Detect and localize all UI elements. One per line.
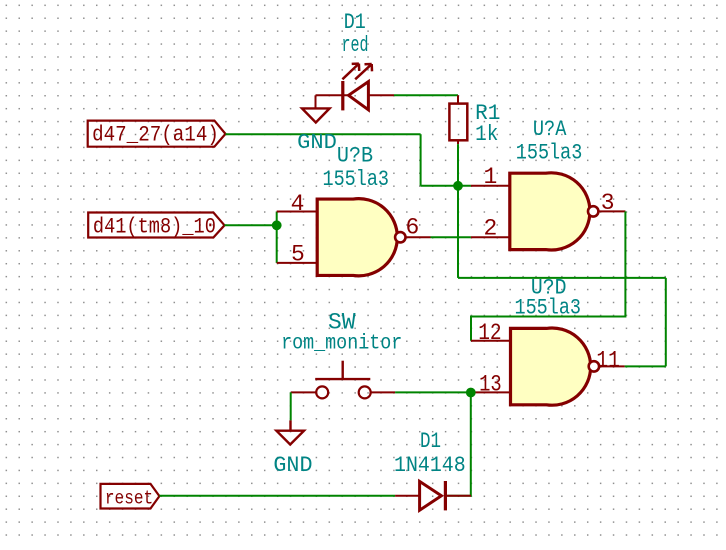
LED cathode bar: [341, 81, 344, 110]
wire horizontal to U?A pin1: [421, 185, 471, 187]
svg-text:1N4148: 1N4148: [394, 453, 466, 478]
wire SW to GND: [290, 392, 292, 420]
op U?D NAND gate: [471, 320, 625, 405]
svg-text:1: 1: [484, 164, 498, 190]
svg-text:11: 11: [596, 347, 620, 373]
wire SW to junction pin13: [395, 391, 471, 393]
gate body U?D: [511, 328, 591, 405]
wire junction down to loop: [457, 186, 459, 278]
wire pin3 down: [471, 211, 625, 340]
wire d47 label to corner: [226, 133, 421, 135]
svg-text:155la3: 155la3: [323, 167, 390, 192]
LED anode bar lead: [368, 94, 394, 96]
diode cathode bar: [444, 481, 447, 510]
wire loop vertical to pin11: [665, 278, 667, 367]
svg-text:d47_27(a14): d47_27(a14): [92, 122, 219, 147]
pin 5 stub: [277, 262, 318, 264]
svg-text:3: 3: [601, 190, 615, 216]
svg-text:13: 13: [479, 372, 502, 398]
svg-text:1k: 1k: [475, 122, 498, 147]
pin 1 stub: [471, 185, 510, 187]
switch actuator bar: [315, 378, 370, 380]
wire loop horizontal: [458, 277, 666, 279]
pin 4 stub: [277, 211, 318, 213]
svg-text:GND: GND: [273, 453, 312, 478]
switch right lead: [371, 391, 395, 393]
switch actuator stem: [342, 361, 344, 379]
junction pin13: [466, 388, 476, 398]
switch left contact: [316, 386, 328, 398]
svg-text:4: 4: [291, 191, 305, 217]
global label d41(tm8)_10: [88, 213, 224, 240]
svg-text:2: 2: [484, 216, 498, 242]
op U?A NAND gate: [471, 164, 626, 250]
svg-text:155la3: 155la3: [515, 296, 582, 321]
LED triangle: [349, 82, 369, 110]
switch left lead: [291, 391, 317, 393]
svg-text:12: 12: [478, 320, 501, 346]
svg-text:D1: D1: [344, 10, 366, 35]
bubble U?A: [588, 206, 598, 216]
resistor R1: [449, 95, 467, 144]
svg-text:rom_monitor: rom_monitor: [281, 333, 402, 356]
gate body U?A: [510, 173, 590, 250]
LED arrow 1: [342, 64, 359, 80]
pin 12 stub: [471, 340, 511, 342]
junction d41: [272, 220, 282, 230]
wire reset to diode: [159, 495, 395, 497]
ground GND (LED): [302, 108, 330, 122]
svg-text:GND: GND: [297, 131, 337, 155]
wire R1 bottom to junction: [457, 144, 459, 186]
wire vertical pin4 to pin5: [276, 212, 278, 263]
bubble U?D: [589, 361, 599, 371]
pin 2 stub: [471, 236, 510, 238]
wire U?B out to U?A pin2: [431, 236, 471, 238]
LED left lead: [316, 94, 349, 96]
diode left lead: [395, 495, 420, 497]
wire vertical down to pin1 row: [420, 134, 422, 186]
svg-text:d41(tm8)_10: d41(tm8)_10: [93, 214, 216, 239]
bubble U?B: [395, 232, 405, 242]
junction R1/pin1: [453, 181, 463, 191]
gate body U?B: [317, 199, 397, 276]
pin 3 stub: [598, 210, 625, 212]
switch SW: [291, 361, 395, 399]
svg-text:6: 6: [406, 214, 420, 240]
diode D1 1N4148: [395, 481, 471, 510]
svg-text:reset: reset: [105, 488, 153, 510]
pin 13 stub: [471, 391, 511, 393]
svg-text:U?A: U?A: [533, 117, 567, 142]
diode right lead: [445, 495, 471, 497]
wire to pin11: [625, 365, 666, 367]
svg-text:red: red: [342, 33, 369, 58]
wire LED down to GND: [315, 95, 317, 108]
ground GND (SW): [276, 420, 304, 444]
wire LED to R1 top: [394, 94, 458, 96]
svg-text:5: 5: [291, 242, 305, 268]
svg-text:U?B: U?B: [337, 143, 373, 168]
svg-text:D1: D1: [420, 429, 441, 454]
global label reset: [101, 484, 160, 510]
wire junction down to diode: [447, 392, 471, 495]
LED arrow 2: [355, 64, 372, 79]
pin 6 stub: [406, 236, 431, 238]
svg-text:155la3: 155la3: [516, 141, 583, 166]
switch right contact: [359, 386, 371, 398]
pin 11 stub: [599, 365, 625, 367]
wire d41 label to junction: [225, 224, 277, 226]
diode triangle: [420, 481, 442, 510]
op U?B NAND gate: [277, 191, 431, 276]
LED D1: [316, 64, 395, 111]
global label d47_27(a14): [88, 121, 226, 148]
